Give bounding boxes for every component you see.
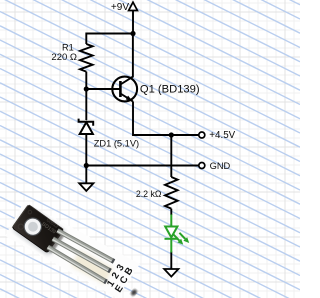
svg-text:+4.5V: +4.5V: [209, 130, 235, 141]
junction dot 2.2k top: [169, 132, 174, 137]
junction dot top rail: [130, 31, 135, 36]
wire: LED cathode black part: [170, 252, 172, 270]
transistor base bar: [119, 81, 122, 97]
collector path: [120, 34, 132, 85]
wire: +9V lead down to junction: [132, 11, 134, 34]
LED light arrows shafts: [173, 234, 179, 240]
wire: 2.2k branch: [170, 135, 172, 177]
wire: GND rail: [86, 165, 201, 167]
emitter path: [120, 94, 132, 102]
ground symbol (LED branch): [164, 269, 178, 277]
photo: shadow below package: [48, 231, 66, 253]
wire: base junction to transistor: [86, 88, 120, 90]
photo: dark spot at photo corner: [130, 288, 138, 296]
resistor 2.2k zigzag: [165, 177, 178, 209]
photo: mounting hole: [21, 215, 45, 239]
svg-text:220 Ω: 220 Ω: [51, 52, 77, 63]
photo: three metal legs: [58, 231, 115, 262]
LED light arrows heads: [177, 237, 189, 244]
wire: top rail to R1: [86, 34, 133, 45]
svg-text:2.2 kΩ: 2.2 kΩ: [136, 189, 162, 199]
node circle +4.5V: [199, 132, 205, 138]
LED cathode lead wire: [170, 239, 172, 253]
photo: mold marks: [17, 223, 24, 230]
LED cathode bar: [165, 238, 179, 240]
+9V supply triangle: [129, 2, 138, 10]
LED anode lead wire: [170, 215, 172, 227]
LED D1 (green): [165, 215, 186, 253]
wire: zener column: [85, 89, 87, 120]
wire: emitter down + +4.5V rail: [133, 101, 201, 135]
svg-text:+9V: +9V: [111, 2, 129, 13]
photo: TO-126 package body: [12, 205, 64, 254]
emitter arrow: [126, 96, 133, 102]
zener diode ZD1 triangle: [80, 122, 93, 134]
photo: package shadow and body group: [11, 204, 68, 257]
junction dot base: [84, 86, 89, 91]
junction dot gnd rail: [84, 163, 89, 168]
resistor R1 zigzag: [80, 44, 93, 72]
wire: R1 bottom to base junction: [85, 72, 87, 89]
transistor Q1 circle: [112, 77, 137, 102]
photo: BD139 transistor picture (bottom-left): [5, 202, 140, 298]
LED triangle: [165, 227, 177, 238]
ground symbol (zener branch): [79, 183, 93, 191]
zener diode ZD1 cathode bar: [79, 119, 94, 126]
photo: beige background blur: [71, 250, 113, 284]
svg-text:ZD1 (5.1V): ZD1 (5.1V): [94, 138, 139, 148]
wire: below 2.2k (black part): [170, 209, 172, 215]
svg-text:Q1 (BD139): Q1 (BD139): [140, 84, 200, 96]
node circle GND: [199, 163, 205, 169]
svg-text:GND: GND: [210, 161, 231, 171]
